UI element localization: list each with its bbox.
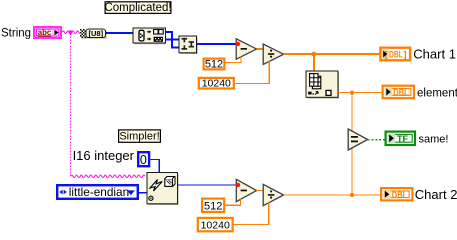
wire 10240 to divide2 bbox=[234, 202, 269, 224]
svg-text:little-endian: little-endian bbox=[69, 185, 129, 199]
constant 10240 (top) bbox=[199, 78, 234, 90]
svg-text:element: element bbox=[417, 87, 457, 99]
indicator Chart 2 (DBL scalar) bbox=[381, 188, 412, 200]
coercion dot subtract1 bbox=[236, 42, 240, 46]
op divide1 (triangle divide) bbox=[263, 44, 283, 64]
svg-text:512: 512 bbox=[204, 200, 222, 212]
constant 0 (I16) bbox=[138, 152, 149, 167]
junction string wire bbox=[69, 30, 73, 34]
coercion dot subtract2 bbox=[236, 183, 240, 187]
wire decimate top out to join lower input bbox=[166, 32, 180, 48]
junction chart2 wire bbox=[350, 193, 354, 197]
label Complicated! bbox=[104, 2, 171, 14]
svg-text:0: 0 bbox=[140, 153, 147, 167]
indicator element (DBL scalar) bbox=[383, 86, 414, 99]
junction element wire bbox=[350, 90, 354, 94]
node Index Array bbox=[306, 71, 339, 99]
svg-text:DBL: DBL bbox=[392, 190, 408, 200]
svg-text:512: 512 bbox=[205, 58, 223, 70]
node Unflatten From String bbox=[147, 173, 179, 206]
wire 10240 to divide1 bbox=[235, 61, 269, 84]
svg-text:same!: same! bbox=[419, 134, 449, 146]
wire subtract2 to divide2 bbox=[257, 190, 264, 192]
wire byte-array to decimate bbox=[106, 32, 134, 34]
constant 512 (top) bbox=[204, 58, 225, 70]
wire vertical junction to equals and chart2 bbox=[351, 93, 353, 195]
svg-text:Chart 2: Chart 2 bbox=[415, 187, 457, 202]
constant 10240 (bottom) bbox=[198, 218, 233, 232]
wire equals to same! (green dotted) bbox=[368, 139, 385, 141]
svg-text:TF: TF bbox=[397, 134, 408, 145]
svg-text:Simpler!: Simpler! bbox=[119, 131, 159, 143]
junction chart1 wire to index array bbox=[311, 52, 316, 57]
svg-text:10240: 10240 bbox=[201, 220, 230, 232]
constant 512 (bottom) bbox=[202, 199, 224, 213]
wire junction down to index array bbox=[313, 54, 315, 71]
ring constant little-endian bbox=[57, 185, 138, 199]
wire unflatten to subtract2 bbox=[178, 184, 237, 186]
wire 512 to subtract1 bbox=[226, 56, 241, 62]
wire 512 to subtract2 bbox=[225, 199, 240, 206]
wire divide1 to Chart 1 bbox=[284, 53, 380, 55]
svg-text:I16 integer: I16 integer bbox=[73, 148, 135, 163]
node String-to-Byte-Array bbox=[80, 29, 107, 39]
wire little-endian to unflatten bbox=[139, 192, 147, 194]
svg-text:DBL: DBL bbox=[389, 49, 403, 59]
wire subtract1 to divide1 bbox=[257, 48, 264, 50]
op equals (triangle =) bbox=[348, 129, 368, 150]
node Decimate 1D Array bbox=[133, 28, 166, 44]
svg-text:Chart 1: Chart 1 bbox=[413, 47, 456, 62]
svg-text:abc: abc bbox=[38, 28, 52, 37]
svg-text:]: ] bbox=[403, 50, 406, 61]
wire string branch vertical (dotted) bbox=[70, 34, 72, 177]
svg-text:DBL: DBL bbox=[393, 88, 409, 98]
wire index array to element bbox=[338, 92, 383, 94]
op subtract2 (triangle minus) bbox=[236, 179, 256, 201]
wire join to subtract1 bbox=[197, 43, 237, 45]
wire 0 to unflatten bbox=[150, 160, 159, 173]
node Join Numbers bbox=[179, 36, 198, 54]
indicator Chart 1 (DBL array) bbox=[380, 48, 410, 61]
svg-text:10240: 10240 bbox=[202, 78, 231, 90]
svg-text:[U8]: [U8] bbox=[89, 29, 104, 38]
svg-text:Complicated!: Complicated! bbox=[104, 2, 171, 14]
op subtract1 (triangle minus) bbox=[236, 39, 256, 59]
wire string branch horizontal (squiggle to unflatten) bbox=[71, 175, 145, 178]
label Simpler! bbox=[119, 130, 161, 143]
svg-text:String: String bbox=[1, 28, 31, 40]
wire divide2 to Chart 2 bbox=[284, 194, 381, 196]
op divide2 (triangle divide) bbox=[263, 184, 283, 205]
wire string (pink squiggle to byte-array node) bbox=[62, 31, 81, 34]
wire decimate bottom out to join upper input bbox=[166, 39, 180, 41]
indicator same! (TF boolean) bbox=[386, 132, 415, 145]
string control String (front panel terminal) bbox=[34, 27, 61, 38]
